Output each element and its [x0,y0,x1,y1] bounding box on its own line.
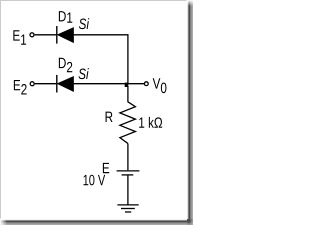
label Si (D2) [79,68,89,79]
wire [73,83,144,85]
label D2 [59,58,72,73]
terminal V0 [144,82,148,86]
label R [106,112,113,122]
wire [35,83,56,85]
node E2 [14,80,27,95]
ground [117,205,138,212]
junction [125,83,129,87]
wire [73,35,128,84]
label 1 kOhm [139,117,162,128]
label Si (D1) [79,18,89,29]
label E [103,163,109,173]
resistor R [120,102,135,144]
terminal E1 [30,33,34,37]
label V0 [153,78,167,93]
wire [127,86,129,102]
terminal E2 [30,82,34,86]
wire [127,176,129,205]
node E1 [13,30,26,45]
wire [35,34,57,36]
label D1 [59,11,72,23]
label 10 V [84,175,106,186]
diode D1 [57,26,74,44]
wire [127,144,129,171]
diode D2 [57,75,74,93]
battery E [117,171,140,175]
